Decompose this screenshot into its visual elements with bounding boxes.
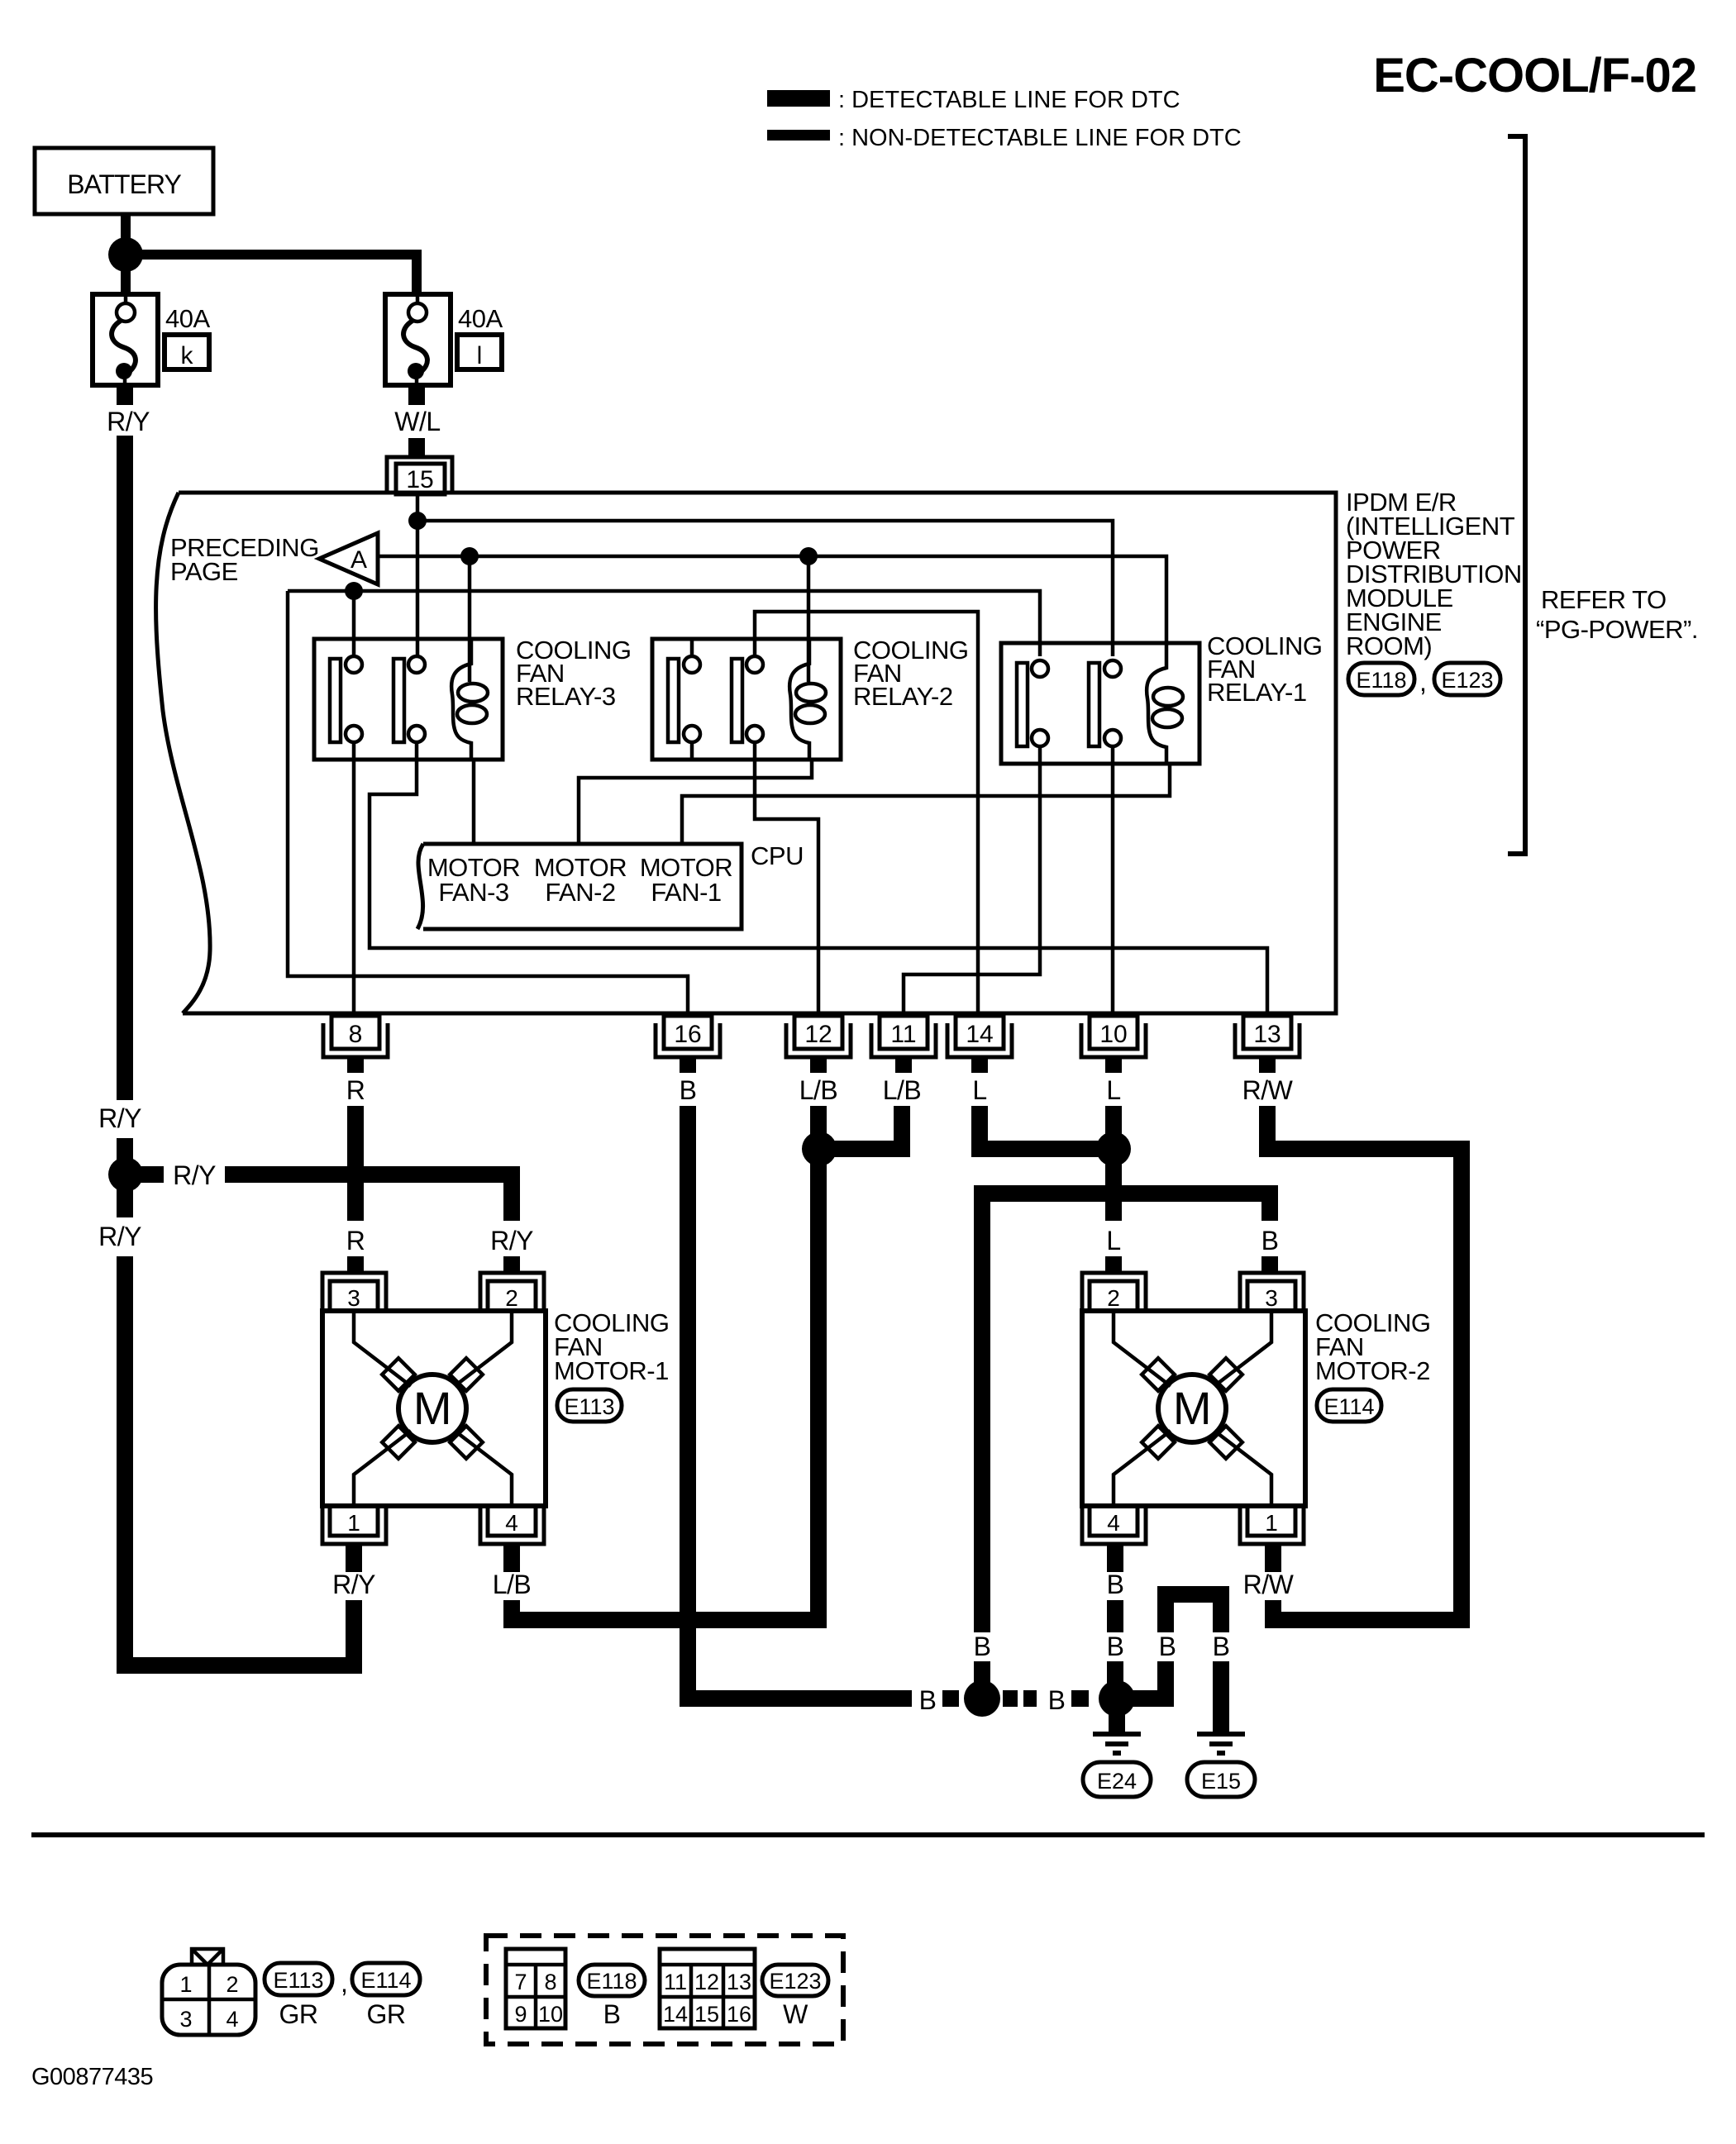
svg-text:B: B xyxy=(1159,1632,1176,1661)
svg-text:,: , xyxy=(341,1968,347,1998)
connector oval E24 xyxy=(1083,1762,1151,1797)
svg-text:2: 2 xyxy=(1107,1285,1120,1311)
svg-text:40A: 40A xyxy=(458,304,503,333)
wire L to motor-2 pin 2 xyxy=(1105,1256,1122,1273)
svg-text:E113: E113 xyxy=(564,1394,614,1419)
wire relay-2 contact-2 to connector 12 xyxy=(755,742,818,1016)
svg-text:L: L xyxy=(1106,1226,1120,1255)
connector 16 on IPDM xyxy=(656,1016,720,1057)
svg-text:: DETECTABLE LINE FOR DTC: : DETECTABLE LINE FOR DTC xyxy=(838,87,1180,113)
wire L/B from connector 12 to junction xyxy=(810,1106,827,1136)
wire n-shape right leg to ground E15 xyxy=(1213,1661,1229,1732)
wire B bus left segment xyxy=(688,1690,912,1699)
wire A-line horizontal xyxy=(378,556,1166,644)
svg-text:RELAY-3: RELAY-3 xyxy=(516,682,616,711)
connector 15 on IPDM xyxy=(387,457,452,494)
motor M2 COOLING FAN MOTOR-2 xyxy=(1082,1273,1305,1544)
wire R/Y left vertical to junction xyxy=(117,1138,133,1160)
wire relay-3 contact-2 to connector 13 xyxy=(370,742,1267,1016)
node W/L branch xyxy=(408,512,427,530)
svg-text:2: 2 xyxy=(226,1972,238,1997)
svg-text:W/L: W/L xyxy=(394,407,440,436)
ground symbol E15 xyxy=(1197,1734,1245,1753)
wire battery to junction xyxy=(121,214,131,241)
connector A triangle to preceding page xyxy=(319,533,378,584)
svg-text:15: 15 xyxy=(406,466,433,493)
svg-text:2: 2 xyxy=(505,1285,518,1311)
wire stub motor-1 pin 1 xyxy=(346,1542,362,1572)
connector oval E118 xyxy=(1348,663,1414,695)
node R/Y junction xyxy=(108,1157,143,1192)
wire H3 horizontal to relay contacts xyxy=(288,591,1040,656)
svg-text:L: L xyxy=(1106,1075,1120,1105)
svg-text:R/W: R/W xyxy=(1243,1570,1295,1599)
connector oval E123 xyxy=(1434,663,1500,695)
node L junction xyxy=(1096,1132,1131,1166)
svg-text:40A: 40A xyxy=(165,304,210,333)
relay U1 COOLING FAN RELAY-1 xyxy=(1001,643,1199,764)
svg-text:R: R xyxy=(346,1226,365,1255)
svg-text:4: 4 xyxy=(1107,1510,1120,1536)
connector 12 on IPDM xyxy=(786,1016,851,1057)
connector oval E15 xyxy=(1187,1762,1255,1797)
wire fuse k output stub xyxy=(117,385,133,405)
svg-text:1: 1 xyxy=(179,1972,192,1997)
wire stub below connector 13 xyxy=(1259,1057,1276,1073)
svg-text:E118: E118 xyxy=(586,1969,637,1994)
svg-text:3: 3 xyxy=(179,2007,192,2032)
wire R to motor-1 pin 3 xyxy=(347,1256,364,1273)
svg-text:B: B xyxy=(680,1075,697,1105)
svg-text:GR: GR xyxy=(279,1999,318,2029)
connector oval E113 xyxy=(557,1389,622,1422)
svg-text:R/Y: R/Y xyxy=(332,1570,375,1599)
wire relay-3 contact-1 to connector 8 xyxy=(352,742,356,1016)
svg-text:B: B xyxy=(974,1632,991,1661)
node bus junction 1 xyxy=(964,1680,1000,1717)
svg-text:13: 13 xyxy=(1253,1021,1281,1048)
wire junction to fuse k xyxy=(121,268,131,294)
bracket refer to PG-POWER xyxy=(1508,136,1525,854)
wire bus to right corner up xyxy=(1131,1661,1166,1699)
svg-text:14: 14 xyxy=(663,2002,688,2027)
connector 14 on IPDM xyxy=(947,1016,1012,1057)
IPDM E/R box outline xyxy=(156,493,1336,1013)
svg-text:L: L xyxy=(972,1075,986,1105)
svg-text:MOTOR-2: MOTOR-2 xyxy=(1315,1356,1430,1385)
wire bus dashes 2 xyxy=(1003,1690,1018,1707)
wire stub below connector 14 xyxy=(971,1057,988,1073)
svg-text:E114: E114 xyxy=(360,1968,411,1993)
wire relay-1 coil to CPU xyxy=(682,764,1170,844)
svg-text:R/Y: R/Y xyxy=(173,1160,216,1190)
svg-text:E123: E123 xyxy=(769,1969,821,1994)
svg-text:BATTERY: BATTERY xyxy=(67,169,181,199)
svg-text:k: k xyxy=(181,342,194,369)
wire B from connector 16 down xyxy=(680,1106,696,1690)
wire L/B junction down to motor-1 pin 4 xyxy=(512,1162,818,1620)
connector oval E114 legend xyxy=(352,1963,420,1995)
wire L junction down xyxy=(1105,1162,1122,1221)
svg-text:10: 10 xyxy=(1099,1021,1127,1048)
fuse l 40A xyxy=(385,294,503,385)
wire relay-2 coil to CPU xyxy=(579,760,812,844)
wire pin4 leg to bus dot xyxy=(1107,1661,1123,1686)
svg-text:B: B xyxy=(1213,1632,1230,1661)
wire R from connector 8 upper xyxy=(347,1106,364,1221)
svg-text:14: 14 xyxy=(966,1021,993,1048)
wire B horizontal above motor-2 xyxy=(982,1193,1270,1632)
wire relay-2 contact-2 to connector 14 xyxy=(755,612,978,1016)
wire stub motor-2 pin 1 xyxy=(1265,1542,1281,1572)
wire bus dash 1 xyxy=(942,1690,959,1707)
svg-text:“PG-POWER”.: “PG-POWER”. xyxy=(1536,615,1698,644)
svg-text:8: 8 xyxy=(349,1021,363,1048)
svg-text:L/B: L/B xyxy=(883,1075,922,1105)
wire relay-1 contact-2 to connector 10 xyxy=(1111,746,1115,1016)
svg-text:E118: E118 xyxy=(1356,668,1406,693)
svg-text:A: A xyxy=(351,546,367,574)
relay U2 COOLING FAN RELAY-2 xyxy=(652,639,841,760)
svg-text:REFER TO: REFER TO xyxy=(1541,585,1667,614)
svg-text:E123: E123 xyxy=(1441,668,1493,693)
wire stub below connector 11 xyxy=(895,1057,912,1073)
battery B1 xyxy=(35,148,213,214)
svg-text:M: M xyxy=(413,1382,451,1434)
svg-text:3: 3 xyxy=(347,1285,360,1311)
svg-text:W: W xyxy=(783,1999,808,2029)
ground symbol E24 xyxy=(1093,1734,1141,1753)
wire R/Y left vertical lower xyxy=(117,1189,133,1217)
svg-text:B: B xyxy=(1048,1685,1066,1715)
svg-text:PAGE: PAGE xyxy=(170,557,238,586)
svg-text:B: B xyxy=(1261,1226,1279,1255)
svg-text:R/Y: R/Y xyxy=(107,407,150,436)
wire R/Y left vertical to bottom U xyxy=(125,1256,354,1665)
wire stub below connector 12 xyxy=(810,1057,827,1073)
connector 8 on IPDM xyxy=(323,1016,388,1057)
CPU box xyxy=(417,844,742,929)
connector oval E114 xyxy=(1317,1389,1381,1422)
svg-text:E15: E15 xyxy=(1201,1769,1241,1794)
svg-text:10: 10 xyxy=(538,2002,563,2027)
svg-text:3: 3 xyxy=(1265,1285,1278,1311)
wire relay-3 contact-1 feed xyxy=(352,591,356,657)
svg-text:B: B xyxy=(1107,1570,1124,1599)
svg-text:B: B xyxy=(1107,1632,1124,1661)
svg-text:1: 1 xyxy=(347,1510,360,1536)
svg-text:4: 4 xyxy=(505,1510,518,1536)
svg-text:11: 11 xyxy=(664,1970,687,1994)
svg-text:FAN-2: FAN-2 xyxy=(545,878,615,907)
fuse k 40A xyxy=(93,294,210,385)
wire B left leg lower segment xyxy=(974,1661,990,1694)
svg-text:12: 12 xyxy=(804,1021,832,1048)
wire W/L inside IPDM from 15 to relay-3 xyxy=(416,494,420,657)
connector 10 on IPDM xyxy=(1081,1016,1146,1057)
svg-text:8: 8 xyxy=(544,1970,556,1994)
svg-text:CPU: CPU xyxy=(751,841,804,870)
svg-text:R/Y: R/Y xyxy=(98,1222,141,1251)
svg-text:4: 4 xyxy=(226,2007,238,2032)
svg-text:L/B: L/B xyxy=(799,1075,838,1105)
svg-text:RELAY-1: RELAY-1 xyxy=(1207,678,1307,707)
svg-text:1: 1 xyxy=(1265,1510,1278,1536)
svg-text:9: 9 xyxy=(514,2002,527,2027)
svg-text:R/Y: R/Y xyxy=(490,1226,533,1255)
svg-text:R/W: R/W xyxy=(1242,1075,1294,1105)
wire bus dash 3 xyxy=(1071,1690,1089,1707)
connector 11 on IPDM xyxy=(871,1016,936,1057)
svg-text:,: , xyxy=(1419,667,1426,697)
svg-text:FAN-1: FAN-1 xyxy=(651,878,721,907)
node H3 to relay-3 contact-1 xyxy=(345,582,363,600)
wire R/W from connector 13 loop right xyxy=(1267,1106,1462,1620)
wire motor-2 pin 4 down to bus xyxy=(1107,1600,1123,1632)
svg-text:G00877435: G00877435 xyxy=(31,2064,153,2090)
svg-text:M: M xyxy=(1173,1382,1211,1434)
svg-text:12: 12 xyxy=(694,1970,719,1994)
svg-text:11: 11 xyxy=(890,1021,916,1048)
svg-text:L/B: L/B xyxy=(493,1570,532,1599)
wire stub below connector 16 xyxy=(680,1057,696,1073)
svg-text:MOTOR-1: MOTOR-1 xyxy=(554,1356,669,1385)
wire n-shape over grounds xyxy=(1166,1594,1221,1632)
wire R/Y branch to motor-1 pin 2 xyxy=(225,1174,512,1221)
wire H3 left leg down to connector 16 xyxy=(288,591,688,1016)
wire relay-2 coil feed xyxy=(807,556,811,682)
svg-text:E114: E114 xyxy=(1323,1394,1374,1419)
legend non-detectable line bar xyxy=(767,130,830,141)
separator line xyxy=(31,1832,1705,1837)
svg-text:B: B xyxy=(919,1685,937,1715)
wire stub motor-2 pin 4 xyxy=(1107,1542,1123,1572)
svg-text:RELAY-2: RELAY-2 xyxy=(853,682,953,711)
wire L from connector 14 to junction xyxy=(980,1106,1099,1149)
wire relay-3 coil to CPU xyxy=(472,760,476,844)
connector 13 on IPDM xyxy=(1235,1016,1300,1057)
wire R/Y main left vertical upper xyxy=(117,436,133,1100)
wire junction to fuse l xyxy=(139,255,417,294)
svg-text:R/Y: R/Y xyxy=(98,1103,141,1133)
wire relay-3 coil feed xyxy=(468,556,472,682)
node battery junction xyxy=(108,237,143,272)
relay U3 COOLING FAN RELAY-3 xyxy=(314,639,503,760)
svg-text:FAN-3: FAN-3 xyxy=(438,878,508,907)
node bus junction 2 xyxy=(1099,1680,1135,1717)
svg-text:7: 7 xyxy=(514,1970,527,1994)
connector icon E118 grid xyxy=(506,1949,565,2028)
node A-line to relay-3 coil xyxy=(460,547,479,565)
legend detectable line bar xyxy=(767,90,830,107)
wire W/L branch to relay-1 contact xyxy=(417,521,1113,656)
svg-text:E24: E24 xyxy=(1097,1769,1137,1794)
svg-text:13: 13 xyxy=(727,1970,751,1994)
svg-text:R: R xyxy=(346,1075,365,1105)
svg-text:16: 16 xyxy=(727,2002,751,2027)
wire R/Y junction stub right xyxy=(141,1166,164,1183)
connector oval E123 legend xyxy=(762,1965,828,1996)
svg-text:ROOM): ROOM) xyxy=(1346,631,1432,660)
wire stub below connector 10 xyxy=(1105,1057,1122,1073)
svg-text:15: 15 xyxy=(694,2002,719,2027)
wire W/L to connector 15 xyxy=(408,438,425,457)
connector oval E118 legend xyxy=(579,1965,645,1996)
node A-line to relay-2 coil xyxy=(799,547,818,565)
wire B to motor-2 pin 3 xyxy=(1261,1256,1278,1273)
wire stub motor-1 pin 4 xyxy=(503,1542,520,1572)
svg-text:EC-COOL/F-02: EC-COOL/F-02 xyxy=(1373,49,1696,102)
wire fuse l output stub xyxy=(408,385,425,405)
svg-text:: NON-DETECTABLE LINE FOR DTC: : NON-DETECTABLE LINE FOR DTC xyxy=(838,125,1242,151)
connector icon E123 grid xyxy=(660,1949,755,2028)
svg-text:GR: GR xyxy=(367,1999,406,2029)
connector oval E113 legend xyxy=(265,1963,332,1995)
wire stub below connector 8 xyxy=(347,1057,364,1073)
svg-text:16: 16 xyxy=(674,1021,701,1048)
dashed box around IPDM connectors legend xyxy=(486,1936,843,2044)
svg-text:E113: E113 xyxy=(273,1968,323,1993)
svg-text:l: l xyxy=(477,342,483,369)
label IPDM E/R block xyxy=(1346,488,1522,660)
connector icon E113/E114 4-pin xyxy=(162,1949,255,2035)
wire L/B branch to connector 11 line xyxy=(833,1106,902,1149)
node L/B junction xyxy=(802,1132,837,1166)
wire relay-1 contact-1 to connector 11 xyxy=(904,746,1040,1016)
wire bus junction 2 to ground E24 xyxy=(1109,1711,1125,1732)
motor M1 COOLING FAN MOTOR-1 xyxy=(322,1273,546,1544)
wire L from connector 10 to junction xyxy=(1105,1106,1122,1136)
svg-text:B: B xyxy=(603,1999,621,2029)
